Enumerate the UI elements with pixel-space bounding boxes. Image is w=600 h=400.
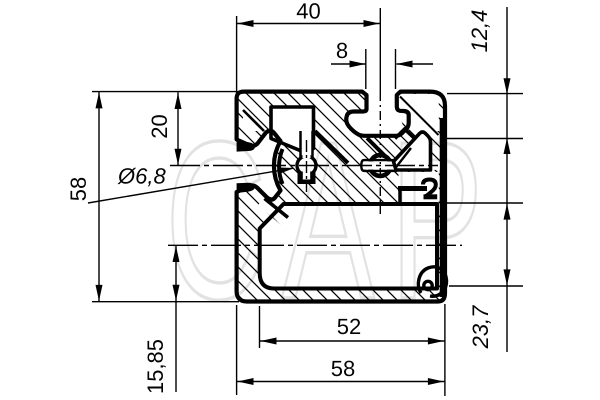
left slot upper lip <box>237 141 255 152</box>
upper-left cavity <box>271 107 314 152</box>
arrows <box>96 20 511 385</box>
strut below lower lobe <box>265 199 289 218</box>
right wall inner line <box>440 118 444 297</box>
svg-text:12,4: 12,4 <box>467 10 492 53</box>
diagonal strut L2 <box>367 138 388 159</box>
center hole neck white <box>302 131 312 158</box>
center hole ring <box>297 156 316 175</box>
svg-text:23,7: 23,7 <box>468 305 493 350</box>
crescent web arc <box>279 149 282 184</box>
svg-text:58: 58 <box>66 177 91 201</box>
svg-text:15,85: 15,85 <box>143 339 168 394</box>
58 bottom <box>237 381 445 383</box>
15.85 <box>175 245 177 392</box>
RC left wall <box>398 187 402 204</box>
right channel <box>362 161 398 169</box>
left slot lower lip <box>237 183 255 193</box>
leader <box>88 168 293 203</box>
8 dim <box>331 63 366 65</box>
profile outer outline <box>237 92 445 302</box>
svg-text:CAP: CAP <box>165 95 498 346</box>
right hole ring <box>370 155 391 176</box>
envelope feature <box>394 132 431 170</box>
svg-text:40: 40 <box>296 0 320 24</box>
diagonal strut L1 <box>315 131 348 163</box>
centerlines <box>168 92 462 245</box>
12.4 + 23.7 shared vertical <box>506 7 508 352</box>
hatching <box>0 85 600 325</box>
watermark CAP <box>165 95 498 346</box>
20 <box>177 92 179 165</box>
center hole top gap <box>303 148 311 158</box>
svg-text:20: 20 <box>147 114 172 138</box>
corner pocket bottom struts <box>395 129 415 139</box>
center hole bottom notch <box>298 172 316 185</box>
digit 2 feature <box>423 180 436 197</box>
ledge <box>398 186 427 191</box>
center hole neck walls <box>301 131 313 157</box>
58 left <box>98 92 100 302</box>
52 dim <box>260 340 445 342</box>
bottom-right curl <box>418 267 446 296</box>
svg-text:8: 8 <box>336 38 348 63</box>
svg-text:58: 58 <box>331 356 355 381</box>
wedge W1 boundary <box>243 110 264 131</box>
bottom cavity <box>260 204 437 289</box>
40 dim <box>236 16 238 94</box>
dimension texts <box>66 0 493 394</box>
svg-text:52: 52 <box>337 314 361 339</box>
svg-text:Ø6,8: Ø6,8 <box>117 163 166 188</box>
top-right corner thin chamfer line <box>400 97 439 136</box>
